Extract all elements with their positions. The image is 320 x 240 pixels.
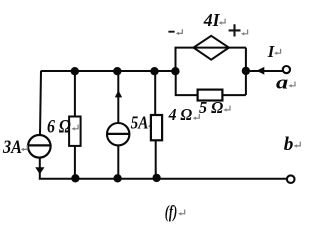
formatting mark after 3A	[21, 145, 27, 151]
wire left vertical upper (3A branch top)	[40, 71, 41, 135]
svg-text:4 Ω: 4 Ω	[168, 105, 193, 124]
resistor R 4ohm body	[151, 115, 162, 140]
wire dependent-source loop left riser	[176, 48, 194, 71]
node junction bottom 6ohm	[71, 174, 79, 182]
wire 4ohm branch upper	[154, 71, 156, 115]
formatting mark after (f)	[178, 210, 185, 216]
dependent source 4I diamond	[194, 36, 229, 60]
node junction top 4ohm	[150, 67, 158, 75]
wire dependent-source loop right top	[229, 47, 246, 49]
svg-text:(f): (f)	[165, 201, 177, 221]
formatting mark after 5 ohm	[224, 106, 231, 112]
wire 6ohm branch upper	[74, 71, 76, 117]
svg-text:6 Ω: 6 Ω	[47, 116, 71, 137]
wire 5A branch upper	[117, 71, 119, 123]
wire 5A branch lower	[117, 146, 119, 179]
svg-text:4I: 4I	[203, 10, 221, 30]
terminal b circle	[287, 175, 295, 183]
wire output lead to terminal a	[246, 70, 283, 72]
wire 4ohm branch lower	[155, 140, 157, 179]
node junction D	[171, 67, 179, 75]
node junction E	[242, 67, 250, 75]
formatting mark after 4I	[219, 19, 226, 25]
current source 3A circle	[28, 135, 51, 158]
node junction top 5A	[113, 67, 121, 75]
dependent source 4I axis bar	[194, 47, 229, 49]
resistor R 5ohm body	[198, 90, 223, 101]
formatting mark after b	[294, 142, 301, 148]
current source 5A bar	[107, 133, 129, 135]
formatting mark after plus	[241, 30, 248, 36]
arrow 5A current direction up	[115, 90, 122, 97]
svg-text:3A: 3A	[2, 138, 22, 158]
current source 5A circle	[107, 123, 129, 145]
wire 3A branch lower	[40, 158, 287, 179]
formatting mark after minus	[176, 29, 183, 35]
svg-text:b: b	[284, 134, 294, 155]
arrow current I pointing left	[256, 67, 264, 75]
svg-text:I: I	[267, 42, 275, 61]
formatting mark after 5A	[148, 122, 155, 128]
formatting mark after I	[274, 49, 281, 55]
arrow 3A current direction down	[35, 167, 44, 174]
terminal a circle	[283, 66, 290, 73]
current source 3A bar	[28, 144, 51, 146]
formatting mark after a	[289, 82, 296, 88]
polarity plus sign	[229, 24, 241, 36]
node junction top 6ohm	[71, 67, 79, 75]
wire 6ohm branch lower	[74, 146, 76, 179]
formatting mark after 6 ohm	[72, 125, 79, 131]
polarity minus sign	[168, 31, 174, 33]
node junction bottom 4ohm	[152, 174, 160, 182]
wire top bus from left corner to node D	[41, 70, 176, 72]
resistor R 6ohm body	[69, 117, 81, 146]
wire 5ohm loop left drop	[176, 71, 198, 95]
formatting mark after 4 ohm	[193, 114, 200, 120]
svg-text:5 Ω: 5 Ω	[199, 98, 223, 117]
wire right riser through node E	[245, 48, 247, 95]
wire 5ohm loop right run	[222, 94, 246, 96]
svg-text:5A: 5A	[131, 113, 149, 133]
svg-text:a: a	[276, 72, 289, 93]
node junction bottom 5A	[113, 174, 121, 182]
